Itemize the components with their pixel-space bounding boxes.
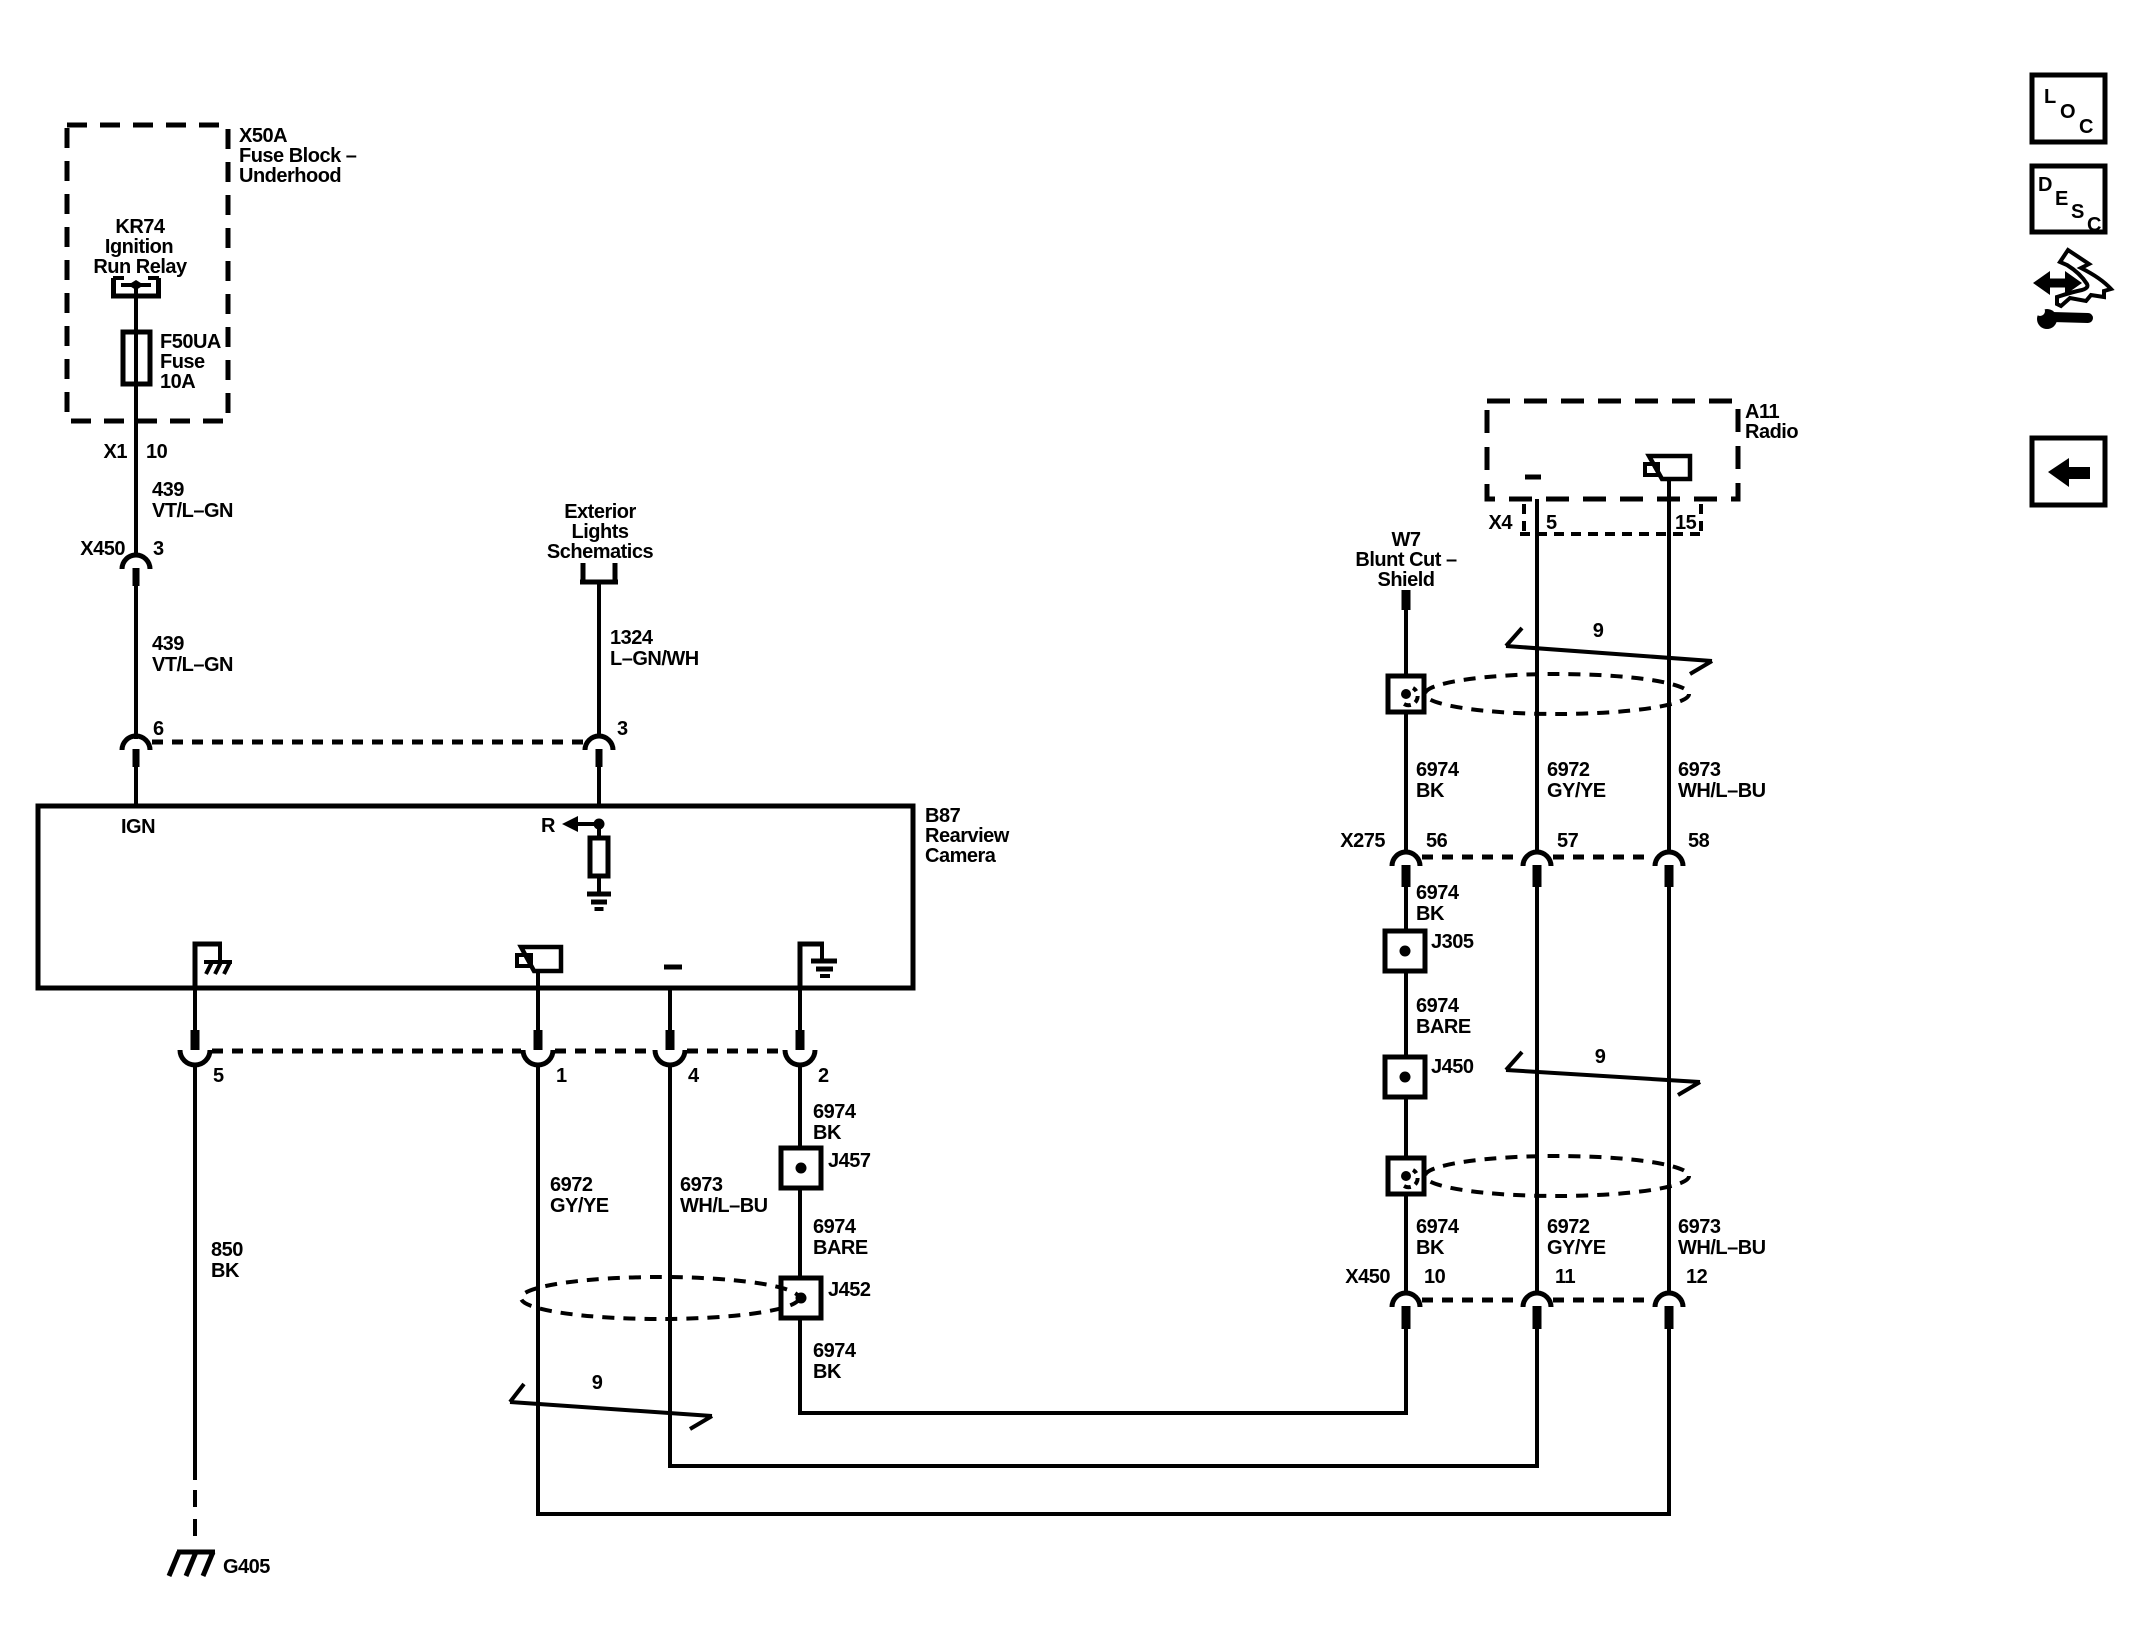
svg-text:IGN: IGN bbox=[121, 816, 155, 838]
wire 6973 WH/L-BU (X275-58 to X450-12) bbox=[1667, 887, 1671, 1293]
svg-text:KR74: KR74 bbox=[115, 216, 166, 238]
blunt cut terminal bbox=[1402, 590, 1411, 610]
dashed in-harness connector line bbox=[152, 740, 583, 745]
wire 6974 BK (camera pin 2) bbox=[798, 1065, 802, 1148]
svg-text:58: 58 bbox=[1688, 830, 1710, 852]
svg-text:9: 9 bbox=[1593, 620, 1604, 642]
svg-text:D: D bbox=[2038, 174, 2052, 196]
rearview camera B87 box bbox=[38, 806, 913, 988]
wire label 6974 BK (above X450) bbox=[1416, 1216, 1460, 1259]
icon LOC box bbox=[2032, 75, 2105, 142]
wire pin6 to B87 bbox=[134, 767, 138, 806]
connector B87 pin 5 bbox=[180, 1030, 210, 1065]
svg-text:Ignition: Ignition bbox=[105, 236, 173, 258]
wire label 6974 BK (below X275) bbox=[1416, 882, 1460, 925]
svg-text:6973: 6973 bbox=[680, 1174, 723, 1196]
wire label 439 VT/L-GN (2) bbox=[152, 633, 233, 676]
svg-text:12: 12 bbox=[1686, 1266, 1708, 1288]
svg-text:Blunt Cut –: Blunt Cut – bbox=[1355, 549, 1457, 571]
splice J452 (shield) bbox=[781, 1278, 821, 1318]
svg-text:9: 9 bbox=[1595, 1046, 1606, 1068]
svg-text:O: O bbox=[2060, 101, 2075, 123]
splice J457 bbox=[781, 1148, 821, 1188]
svg-text:Fuse: Fuse bbox=[160, 351, 205, 373]
label KR74 Ignition Run Relay bbox=[93, 216, 188, 278]
svg-text:56: 56 bbox=[1426, 830, 1448, 852]
svg-text:11: 11 bbox=[1555, 1266, 1576, 1288]
svg-text:X4: X4 bbox=[1489, 512, 1514, 534]
svg-text:Shield: Shield bbox=[1377, 569, 1434, 591]
wire to shield splice bbox=[1404, 1097, 1408, 1158]
wire 6974 BK to X450-10 bbox=[800, 1318, 1406, 1413]
shield splice box (upper) bbox=[1388, 676, 1424, 712]
splice J305 bbox=[1385, 931, 1425, 971]
resistor (internal) bbox=[590, 824, 608, 892]
wire 1324 bbox=[597, 582, 601, 736]
svg-text:6974: 6974 bbox=[1416, 882, 1460, 904]
wire dashed tail to ground bbox=[193, 1490, 197, 1545]
svg-text:Exterior: Exterior bbox=[564, 501, 636, 523]
svg-text:6973: 6973 bbox=[1678, 1216, 1721, 1238]
connector X450 pin 11 bbox=[1523, 1293, 1551, 1329]
svg-text:10: 10 bbox=[146, 441, 168, 463]
chassis ground (internal left) bbox=[195, 944, 232, 988]
wire label 6973 WH/L-BU (above X450) bbox=[1678, 1216, 1766, 1259]
svg-text:F50UA: F50UA bbox=[160, 331, 221, 353]
wire label 850 BK bbox=[211, 1239, 243, 1282]
wire B87 pin 1 stub bbox=[536, 971, 540, 1032]
svg-text:10: 10 bbox=[1424, 1266, 1446, 1288]
earth ground (internal right) bbox=[800, 944, 837, 988]
svg-text:6974: 6974 bbox=[1416, 995, 1460, 1017]
wire B87 pin 2 stub bbox=[798, 988, 802, 1032]
svg-text:A11: A11 bbox=[1745, 401, 1779, 423]
twisted pair arrow 9 (left) bbox=[510, 1384, 712, 1429]
svg-text:VT/L–GN: VT/L–GN bbox=[152, 654, 233, 676]
connector B87 pin 4 bbox=[655, 1030, 685, 1065]
svg-text:439: 439 bbox=[152, 633, 184, 655]
svg-text:X50A: X50A bbox=[239, 125, 287, 147]
svg-text:57: 57 bbox=[1557, 830, 1579, 852]
dashed harness line (X450 right) bbox=[1422, 1298, 1653, 1303]
svg-text:6974: 6974 bbox=[813, 1216, 857, 1238]
fuse F50UA 10A bbox=[123, 332, 150, 384]
svg-text:5: 5 bbox=[213, 1065, 224, 1087]
icon DESC box bbox=[2032, 166, 2105, 236]
svg-text:1: 1 bbox=[556, 1065, 567, 1087]
svg-text:BK: BK bbox=[1416, 903, 1445, 925]
wire 6974 BARE (right) bbox=[1404, 971, 1408, 1057]
svg-text:6972: 6972 bbox=[1547, 1216, 1590, 1238]
dashed harness line (X275) bbox=[1422, 855, 1653, 860]
connector X275 pin 57 bbox=[1523, 852, 1551, 887]
svg-text:Underhood: Underhood bbox=[239, 165, 341, 187]
svg-text:J452: J452 bbox=[828, 1279, 871, 1301]
svg-text:WH/L–BU: WH/L–BU bbox=[680, 1195, 768, 1217]
splice J450 bbox=[1385, 1057, 1425, 1097]
svg-text:G405: G405 bbox=[223, 1556, 270, 1578]
minus pin (internal) bbox=[664, 965, 682, 970]
svg-text:Radio: Radio bbox=[1745, 421, 1798, 443]
svg-text:C: C bbox=[2087, 214, 2101, 236]
svg-text:GY/YE: GY/YE bbox=[1547, 1237, 1606, 1259]
svg-text:850: 850 bbox=[211, 1239, 243, 1261]
svg-text:Run Relay: Run Relay bbox=[93, 256, 188, 278]
svg-text:GY/YE: GY/YE bbox=[1547, 780, 1606, 802]
svg-text:Lights: Lights bbox=[572, 521, 629, 543]
label A11 Radio bbox=[1745, 401, 1798, 443]
label Exterior Lights Schematics bbox=[547, 501, 654, 563]
connector pin 3 (exterior branch) bbox=[585, 736, 613, 767]
wire label 6973 WH/L-BU (above X275) bbox=[1678, 759, 1766, 802]
svg-text:6972: 6972 bbox=[1547, 759, 1590, 781]
wire B87 pin 4 stub bbox=[668, 988, 672, 1032]
label F50UA Fuse 10A bbox=[160, 331, 221, 393]
icon harness repair (arrows + wrench) bbox=[2033, 250, 2111, 329]
node R arrow bbox=[541, 815, 599, 837]
wire 6974 BARE bbox=[798, 1188, 802, 1278]
svg-text:W7: W7 bbox=[1392, 529, 1421, 551]
svg-text:Camera: Camera bbox=[925, 845, 997, 867]
svg-text:15: 15 bbox=[1675, 512, 1697, 534]
wire label 6974 BK (lower) bbox=[813, 1340, 857, 1383]
wire label 6974 BK bbox=[813, 1101, 857, 1144]
svg-text:R: R bbox=[541, 815, 556, 837]
svg-text:BK: BK bbox=[813, 1122, 842, 1144]
wire into B87 bbox=[597, 767, 601, 806]
wire label 6974 BK (above X275) bbox=[1416, 759, 1460, 802]
svg-text:3: 3 bbox=[153, 538, 164, 560]
connector X450 pin 10 bbox=[1392, 1293, 1420, 1329]
svg-text:L: L bbox=[2044, 86, 2056, 108]
wire 6974 BK below X275 bbox=[1404, 887, 1408, 931]
relay KR74 contact symbol bbox=[111, 278, 161, 296]
connector B87 pin 1 bbox=[523, 1030, 553, 1065]
svg-text:2: 2 bbox=[818, 1065, 829, 1087]
connector X450 pin 12 bbox=[1655, 1293, 1683, 1329]
svg-text:BARE: BARE bbox=[813, 1237, 868, 1259]
wire label 1324 L-GN/WH bbox=[610, 627, 699, 670]
svg-text:X450: X450 bbox=[1345, 1266, 1390, 1288]
wire label 6972 GY/YE (above X450) bbox=[1547, 1216, 1606, 1259]
svg-text:L–GN/WH: L–GN/WH bbox=[610, 648, 699, 670]
icon back arrow box bbox=[2032, 438, 2105, 505]
wire label 439 VT/L-GN bbox=[152, 479, 233, 522]
svg-text:X275: X275 bbox=[1340, 830, 1385, 852]
shield ellipse (lower right) bbox=[1425, 1156, 1689, 1196]
svg-text:BARE: BARE bbox=[1416, 1016, 1471, 1038]
wire down to X450-10 bbox=[1404, 1194, 1408, 1293]
svg-text:1324: 1324 bbox=[610, 627, 654, 649]
svg-text:9: 9 bbox=[592, 1372, 603, 1394]
connector X450 pin 3 bbox=[122, 555, 150, 586]
svg-text:Fuse Block –: Fuse Block – bbox=[239, 145, 357, 167]
shield ellipse (left) bbox=[521, 1277, 799, 1319]
svg-text:BK: BK bbox=[1416, 1237, 1445, 1259]
svg-text:VT/L–GN: VT/L–GN bbox=[152, 500, 233, 522]
svg-text:X1: X1 bbox=[104, 441, 128, 463]
svg-text:6974: 6974 bbox=[1416, 1216, 1460, 1238]
wire label 6972 GY/YE bbox=[550, 1174, 609, 1217]
ground G405 bbox=[169, 1552, 215, 1576]
label B87 Rearview Camera bbox=[925, 805, 1010, 867]
svg-text:6973: 6973 bbox=[1678, 759, 1721, 781]
twisted pair arrow 9 (lower right) bbox=[1506, 1052, 1700, 1095]
wire 6972 GY/YE (camera pin 1 to X450-12) bbox=[538, 1065, 1669, 1514]
svg-text:GY/YE: GY/YE bbox=[550, 1195, 609, 1217]
wire label 6974 BARE bbox=[813, 1216, 868, 1259]
svg-text:6974: 6974 bbox=[813, 1101, 857, 1123]
svg-text:Schematics: Schematics bbox=[547, 541, 654, 563]
dashed harness line (camera connector) bbox=[212, 1049, 783, 1054]
wire B87 pin 5 stub bbox=[193, 988, 197, 1032]
svg-text:E: E bbox=[2055, 188, 2068, 210]
svg-text:J305: J305 bbox=[1431, 931, 1474, 953]
connector pin 6 bbox=[122, 736, 150, 767]
svg-text:5: 5 bbox=[1546, 512, 1557, 534]
svg-text:BK: BK bbox=[813, 1361, 842, 1383]
connector B87 pin 2 bbox=[785, 1030, 815, 1065]
svg-text:Rearview: Rearview bbox=[925, 825, 1010, 847]
svg-text:BK: BK bbox=[211, 1260, 240, 1282]
svg-text:J457: J457 bbox=[828, 1150, 871, 1172]
svg-text:X450: X450 bbox=[80, 538, 125, 560]
svg-text:S: S bbox=[2071, 201, 2084, 223]
minus pin (radio) bbox=[1525, 475, 1541, 480]
connector X4 dashed bracket bbox=[1520, 504, 1702, 534]
label W7 Blunt Cut - Shield bbox=[1355, 529, 1457, 591]
svg-text:C: C bbox=[2079, 116, 2093, 138]
radio A11 dashed box bbox=[1487, 401, 1738, 499]
wire 6972 GY/YE (X275-57 to X450-11) bbox=[1535, 887, 1539, 1293]
twisted pair arrow 9 (upper right) bbox=[1506, 628, 1712, 674]
wire shield to X275-56 bbox=[1404, 712, 1408, 852]
svg-text:4: 4 bbox=[688, 1065, 700, 1087]
svg-text:WH/L–BU: WH/L–BU bbox=[1678, 1237, 1766, 1259]
svg-text:6972: 6972 bbox=[550, 1174, 593, 1196]
wire label 6973 WH/L-BU bbox=[680, 1174, 768, 1217]
wire X4-5 down bbox=[1535, 499, 1539, 852]
fuse block X50A dashed box bbox=[67, 125, 228, 421]
svg-text:10A: 10A bbox=[160, 371, 195, 393]
wire 6973 WH/L-BU (camera pin 4 to X450-11) bbox=[670, 1065, 1537, 1466]
wire 850 BK bbox=[193, 1065, 197, 1480]
wire X4-15 down bbox=[1667, 480, 1671, 852]
svg-text:BK: BK bbox=[1416, 780, 1445, 802]
svg-text:6: 6 bbox=[153, 718, 164, 740]
wire relay to X450-3 bbox=[134, 285, 138, 556]
svg-text:J450: J450 bbox=[1431, 1056, 1474, 1078]
svg-text:6974: 6974 bbox=[1416, 759, 1460, 781]
connector X275 pin 58 bbox=[1655, 852, 1683, 887]
wire label 6974 BARE (right) bbox=[1416, 995, 1471, 1038]
junction dot bbox=[594, 819, 605, 830]
svg-text:3: 3 bbox=[617, 718, 628, 740]
svg-text:439: 439 bbox=[152, 479, 184, 501]
ground (internal, below resistor) bbox=[587, 894, 611, 909]
shield ellipse (upper right) bbox=[1425, 674, 1689, 714]
svg-text:B87: B87 bbox=[925, 805, 961, 827]
shield splice box (lower) bbox=[1388, 1158, 1424, 1194]
off-page reference bracket bbox=[580, 563, 618, 582]
label X50A Fuse Block - Underhood bbox=[239, 125, 357, 187]
camera icon (internal) bbox=[517, 947, 561, 971]
wire label 6972 GY/YE (above X275) bbox=[1547, 759, 1606, 802]
svg-text:WH/L–BU: WH/L–BU bbox=[1678, 780, 1766, 802]
camera icon (radio) bbox=[1649, 456, 1690, 479]
svg-text:6974: 6974 bbox=[813, 1340, 857, 1362]
wire 439 segment 2 bbox=[134, 586, 138, 739]
connector X275 pin 56 bbox=[1392, 852, 1420, 887]
